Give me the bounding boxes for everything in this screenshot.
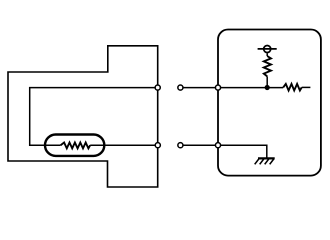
gauge unit terminal (lower, on box edge)	[215, 143, 220, 148]
ground hatch 2	[260, 159, 264, 165]
sender housing outline	[8, 46, 158, 187]
variable resistor element R1 (zigzag)	[61, 143, 91, 149]
terminal pin 1 (upper, sender)	[155, 85, 160, 90]
wire: lower connector to gauge unit	[183, 144, 218, 146]
resistor body (stadium outline)	[45, 135, 104, 156]
wire: upper connector to gauge unit	[183, 87, 218, 89]
wire: resistor to lower terminal	[90, 144, 158, 146]
wire: lower box terminal to ground	[218, 145, 267, 157]
harness connector terminal (upper)	[178, 85, 183, 90]
wire: junction up to resistor R2	[266, 76, 268, 87]
resistor R3 (horizontal zigzag)	[283, 84, 302, 91]
wire: resistor R3 output stub	[302, 86, 311, 88]
gauge unit terminal (upper, on box edge)	[215, 85, 220, 90]
terminal pin 2 (lower, sender)	[155, 143, 160, 148]
supply terminal (circle)	[264, 46, 271, 53]
ground hatch 1	[255, 159, 259, 165]
ground hatch 3	[265, 159, 269, 165]
harness connector terminal (lower)	[178, 143, 183, 148]
ground bar	[258, 157, 275, 159]
supply terminal bar	[258, 48, 277, 50]
resistor R2 (vertical zigzag)	[264, 56, 271, 76]
junction node	[265, 85, 270, 90]
ground hatch 4	[270, 159, 274, 165]
wire: upper box terminal to internal resistors	[218, 87, 283, 89]
wire: upper terminal to resistor (left run)	[30, 88, 158, 146]
gauge unit box	[218, 30, 321, 176]
wire: resistor R2 to supply terminal	[266, 53, 268, 56]
